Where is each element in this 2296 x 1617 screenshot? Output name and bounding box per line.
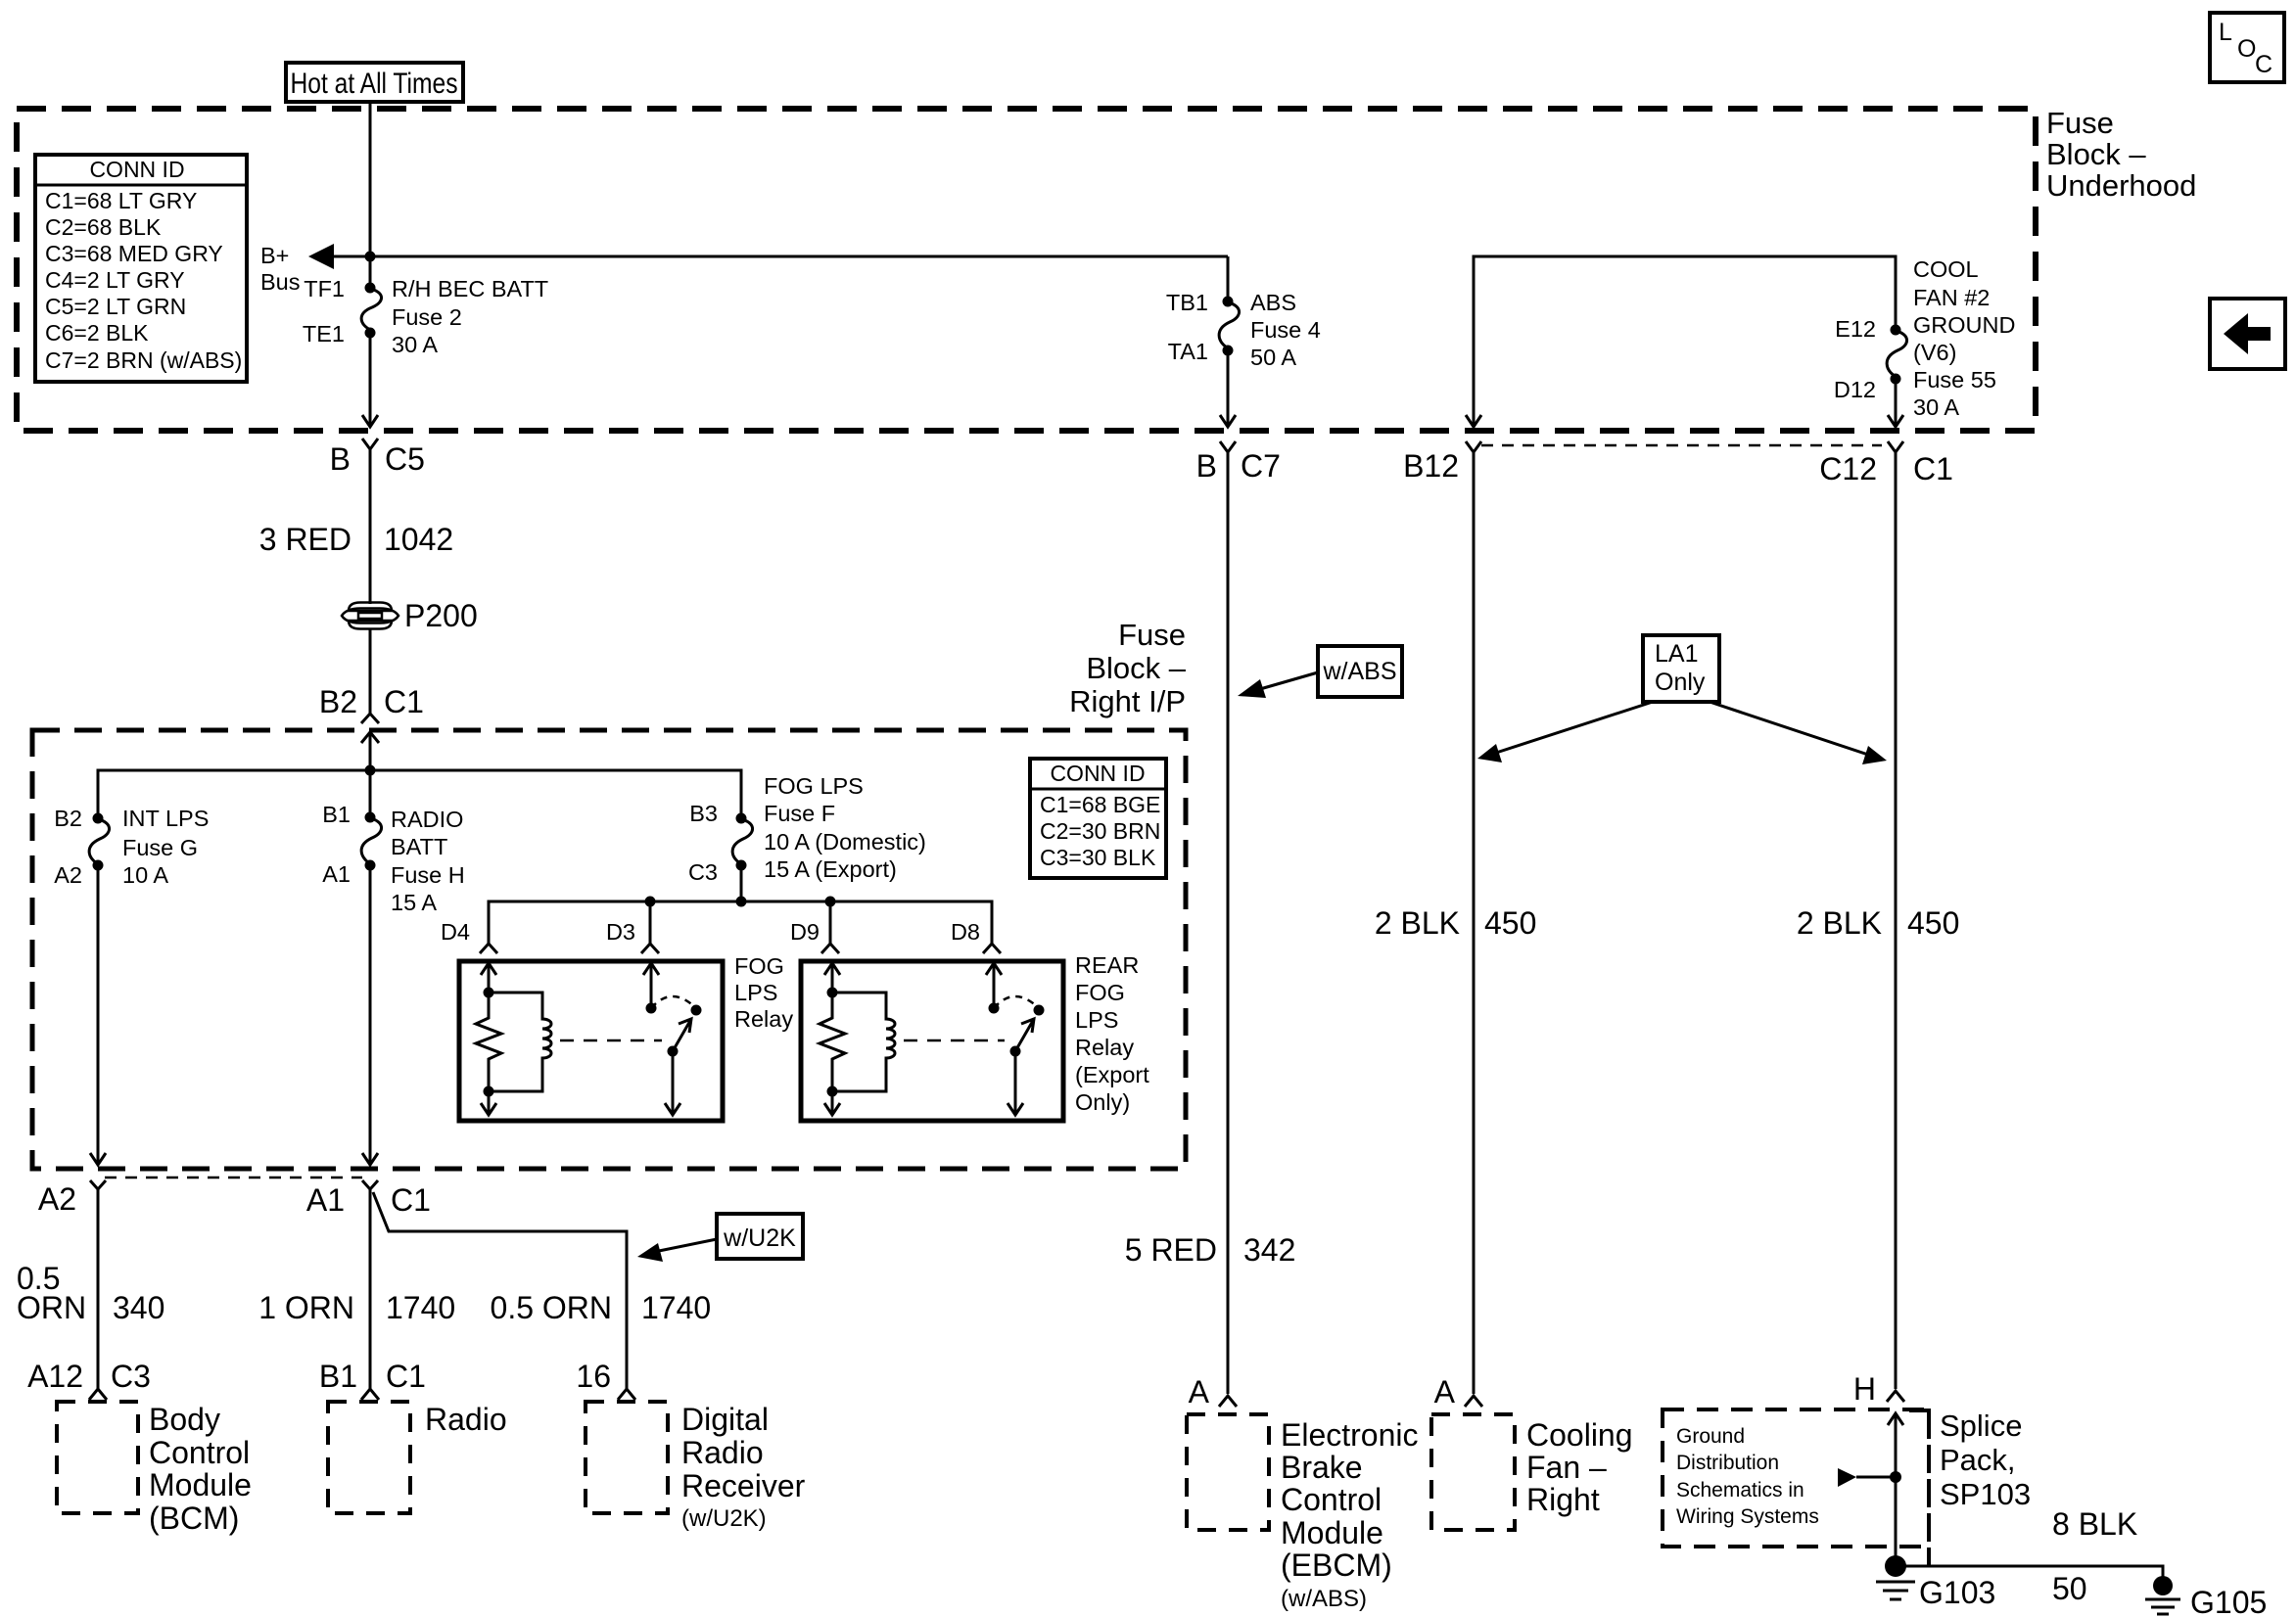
node: junction of feed and B+ bus — [365, 252, 376, 262]
Cooling Fan - Right box — [1431, 1414, 1633, 1530]
splice P200 — [342, 598, 478, 633]
connector B1/C1 (radio) — [319, 1359, 426, 1400]
node: bus junction at radio fuse — [365, 765, 376, 776]
distribution bus wire — [98, 770, 741, 818]
node: fuse F junction — [736, 897, 747, 907]
relay K2 REAR FOG LPS Relay box — [801, 961, 1063, 1121]
LOC legend box — [2210, 13, 2284, 82]
svg-text:B1: B1 — [322, 802, 351, 827]
connector C12/C1 — [1819, 441, 1953, 486]
svg-text:GROUND: GROUND — [1913, 312, 2015, 338]
Radio box — [328, 1402, 507, 1513]
connector D8 — [951, 919, 1001, 953]
wire: stub to D3 — [649, 901, 652, 944]
svg-text:Fuse 4: Fuse 4 — [1250, 317, 1321, 343]
svg-text:Fuse H: Fuse H — [391, 862, 465, 888]
relay K2 coil branch — [832, 993, 895, 1091]
svg-text:Brake: Brake — [1281, 1450, 1363, 1485]
connector A2 — [38, 1180, 106, 1217]
relay K2 switch throw arc (dashed) — [994, 996, 1039, 1008]
svg-text:(V6): (V6) — [1913, 340, 1956, 365]
svg-text:10 A: 10 A — [122, 862, 168, 888]
wire label 0.5 ORN 1740 — [491, 1290, 712, 1325]
wire: feed into distribution bus — [369, 732, 372, 817]
dashed connector boundary line B12 to C12 — [1481, 444, 1882, 447]
wire: fuse F output to relay feed line — [740, 865, 743, 901]
svg-text:8 BLK: 8 BLK — [2052, 1506, 2137, 1542]
relay K1 switch output arrow — [665, 1051, 680, 1115]
wire: B12 feed with horizontal run to cooling-fan fuse — [1474, 256, 1896, 425]
svg-text:C3=68 MED GRY: C3=68 MED GRY — [45, 241, 223, 266]
arrow entering fuse block right I/P — [361, 732, 379, 743]
svg-text:CONN ID: CONN ID — [89, 157, 184, 182]
svg-text:B: B — [330, 441, 351, 477]
svg-text:C2=30 BRN: C2=30 BRN — [1040, 818, 1160, 844]
svg-text:A1: A1 — [322, 861, 351, 887]
svg-text:D9: D9 — [790, 919, 820, 945]
svg-text:COOL: COOL — [1913, 256, 1979, 282]
svg-text:Fuse: Fuse — [2046, 106, 2114, 140]
relay K2 linkage (dashed) — [904, 1039, 1005, 1042]
svg-text:C1=68 LT GRY: C1=68 LT GRY — [45, 188, 197, 213]
svg-text:C12: C12 — [1819, 451, 1877, 486]
wire label 5 RED 342 — [1125, 1232, 1296, 1268]
w/ABS callout box — [1318, 646, 1402, 697]
LA1 callout arrow left — [1477, 702, 1653, 762]
node: relay K2 switch common — [1010, 1046, 1021, 1057]
svg-text:15 A: 15 A — [391, 890, 437, 915]
svg-text:Schematics in: Schematics in — [1676, 1479, 1804, 1501]
svg-text:ORN: ORN — [17, 1290, 86, 1325]
relay K1 linkage (dashed) — [560, 1039, 662, 1042]
CONN ID table (underhood) — [35, 155, 247, 382]
connector B/C7 — [1196, 441, 1281, 484]
svg-text:(w/U2K): (w/U2K) — [681, 1505, 767, 1532]
svg-text:TE1: TE1 — [303, 321, 345, 346]
svg-text:B3: B3 — [689, 801, 718, 826]
B+ Bus arrow and wire — [260, 243, 1228, 295]
svg-text:C1: C1 — [1913, 451, 1953, 486]
relay K2 resistor — [820, 993, 845, 1091]
svg-text:50 A: 50 A — [1250, 345, 1296, 370]
svg-text:C2=68 BLK: C2=68 BLK — [45, 214, 162, 240]
svg-text:C7=2 BRN (w/ABS): C7=2 BRN (w/ABS) — [45, 347, 242, 373]
svg-text:Right: Right — [1526, 1482, 1600, 1517]
connector B12 — [1403, 441, 1481, 484]
svg-text:H: H — [1853, 1371, 1876, 1407]
node: relay K1 coil bottom — [484, 1086, 494, 1097]
Ground Distribution reference box — [1663, 1409, 1929, 1547]
svg-text:C6=2 BLK: C6=2 BLK — [45, 320, 149, 346]
svg-text:1 ORN: 1 ORN — [258, 1290, 354, 1325]
node: D9 junction — [825, 897, 836, 907]
node: relay K2 coil top — [827, 988, 838, 998]
ground G105 — [2145, 1576, 2267, 1617]
svg-text:INT LPS: INT LPS — [122, 806, 209, 831]
svg-text:Receiver: Receiver — [681, 1468, 806, 1503]
wire: C5 down to splice P200 — [369, 449, 372, 604]
svg-text:A2: A2 — [54, 862, 82, 888]
svg-text:450: 450 — [1484, 905, 1536, 941]
wire label 3 RED 1042 — [259, 522, 453, 557]
wire: B+ bus branch down to ABS fuse — [1227, 256, 1230, 301]
ground distribution pointer triangle — [1838, 1468, 1901, 1487]
node: relay K1 switch pivot — [646, 1003, 657, 1014]
svg-text:Module: Module — [1281, 1515, 1383, 1550]
svg-text:Control: Control — [1281, 1482, 1382, 1517]
svg-text:Wiring Systems: Wiring Systems — [1676, 1505, 1819, 1528]
svg-text:LPS: LPS — [734, 980, 777, 1005]
svg-text:REAR: REAR — [1075, 952, 1139, 978]
relay K1 coil output arrow — [481, 1091, 496, 1115]
connector D4 — [441, 919, 497, 953]
svg-text:C: C — [2255, 51, 2273, 78]
svg-text:0.5 ORN: 0.5 ORN — [491, 1290, 612, 1325]
ground G103 — [1876, 1555, 1995, 1610]
node: relay K2 coil bottom — [827, 1086, 838, 1097]
left-arrow legend box — [2210, 299, 2285, 369]
svg-text:TB1: TB1 — [1166, 290, 1208, 315]
svg-text:C3: C3 — [688, 859, 718, 885]
fuse 55 (COOL FAN #2 GROUND (V6) 30 A), terminals E12/D12 — [1834, 256, 2016, 420]
svg-text:SP103: SP103 — [1940, 1477, 2031, 1511]
relay K1 switch throw arc (dashed) — [651, 996, 696, 1008]
Fuse Block - Underhood label — [2046, 106, 2196, 203]
svg-text:Digital: Digital — [681, 1402, 769, 1437]
svg-text:Underhood: Underhood — [2046, 168, 2196, 203]
relay K2 switch contact — [1034, 1005, 1045, 1016]
svg-text:C5: C5 — [385, 441, 425, 477]
svg-text:Splice: Splice — [1940, 1409, 2022, 1443]
wire label 2 BLK 450 (right) — [1797, 905, 1960, 941]
arrow at B12 — [1466, 415, 1481, 427]
svg-text:C7: C7 — [1241, 448, 1281, 484]
svg-text:A: A — [1434, 1374, 1456, 1409]
svg-text:Fuse 55: Fuse 55 — [1913, 367, 1996, 393]
svg-text:450: 450 — [1907, 905, 1959, 941]
svg-text:C1: C1 — [386, 1359, 426, 1394]
svg-text:Hot at All Times: Hot at All Times — [291, 68, 458, 100]
wire: splice pack ground feed — [1895, 452, 1898, 1389]
svg-text:TF1: TF1 — [304, 276, 345, 301]
svg-text:Fan –: Fan – — [1526, 1450, 1607, 1485]
svg-text:LA1: LA1 — [1655, 640, 1698, 668]
svg-text:G105: G105 — [2190, 1585, 2267, 1617]
connector B2/C1 — [319, 684, 424, 723]
svg-text:B1: B1 — [319, 1359, 357, 1394]
wire: fuse G output down to I/P edge — [97, 865, 100, 1163]
svg-text:FOG LPS: FOG LPS — [764, 773, 864, 799]
svg-text:B: B — [1196, 448, 1217, 484]
relay feed wire — [489, 901, 992, 944]
fuse G (INT LPS 10 A), terminals B2/A2 — [54, 806, 209, 888]
svg-text:Module: Module — [149, 1467, 252, 1502]
svg-text:Only: Only — [1655, 669, 1706, 696]
relay K2 coil output arrow — [824, 1091, 840, 1115]
w/U2K callout arrow — [637, 1239, 717, 1262]
wire: cooling fan ground feed — [1473, 452, 1476, 1394]
svg-text:R/H BEC BATT: R/H BEC BATT — [392, 276, 548, 301]
arrow into splice pack — [1888, 1413, 1903, 1566]
svg-text:TA1: TA1 — [1168, 339, 1208, 364]
svg-text:A1: A1 — [306, 1182, 345, 1218]
Fuse Block - Right I/P dashed box — [32, 730, 1186, 1169]
svg-text:D3: D3 — [606, 919, 635, 945]
svg-text:Electronic: Electronic — [1281, 1417, 1419, 1453]
w/U2K callout box — [717, 1214, 803, 1259]
svg-text:Distribution: Distribution — [1676, 1452, 1779, 1474]
svg-text:P200: P200 — [404, 598, 478, 633]
CONN ID table (right I/P) — [1030, 759, 1166, 878]
svg-text:D4: D4 — [441, 919, 470, 945]
svg-text:Body: Body — [149, 1402, 220, 1437]
svg-text:C4=2 LT GRY: C4=2 LT GRY — [45, 267, 185, 293]
relay K2 switch arm — [1015, 1019, 1034, 1051]
svg-text:2 BLK: 2 BLK — [1375, 905, 1460, 941]
fuse 4 (ABS 50 A), terminals TB1/TA1 — [1166, 290, 1321, 370]
svg-text:Radio: Radio — [425, 1402, 507, 1437]
svg-text:Pack,: Pack, — [1940, 1443, 2016, 1477]
svg-text:FOG: FOG — [734, 953, 784, 979]
wire label 2 BLK 450 (left) — [1375, 905, 1537, 941]
svg-text:B2: B2 — [54, 806, 82, 831]
svg-text:1042: 1042 — [384, 522, 453, 557]
svg-text:C5=2 LT GRN: C5=2 LT GRN — [45, 294, 186, 319]
LA1 Only callout box — [1643, 635, 1719, 702]
arrow at A2 — [90, 1153, 106, 1165]
svg-text:1740: 1740 — [386, 1290, 455, 1325]
svg-text:Right I/P: Right I/P — [1069, 684, 1186, 718]
svg-text:(BCM): (BCM) — [149, 1501, 239, 1536]
wire 8 BLK 50 to G105 — [1896, 1506, 2163, 1606]
svg-text:CONN ID: CONN ID — [1050, 761, 1145, 786]
svg-text:3 RED: 3 RED — [259, 522, 351, 557]
fuse H (RADIO BATT 15 A), terminals B1/A1 — [322, 802, 465, 915]
svg-text:Cooling: Cooling — [1526, 1417, 1633, 1453]
REAR FOG LPS Relay label — [1075, 952, 1149, 1115]
connector A1/C1 — [306, 1180, 431, 1218]
wire: fuse 2 output down to connector C5 — [369, 333, 372, 425]
connector D9 — [790, 919, 839, 953]
relay K1 coil branch — [489, 993, 551, 1091]
relay K1 switch input arrow — [643, 963, 659, 1008]
svg-text:10 A (Domestic): 10 A (Domestic) — [764, 829, 926, 855]
svg-text:A: A — [1189, 1374, 1210, 1409]
svg-text:50: 50 — [2052, 1571, 2087, 1606]
connector D3 — [606, 919, 659, 953]
svg-text:Fuse: Fuse — [1118, 618, 1186, 652]
wire: Hot at All Times feed down — [369, 102, 372, 288]
svg-text:15 A (Export): 15 A (Export) — [764, 856, 897, 882]
arrow at A1 — [362, 1153, 378, 1165]
svg-text:(EBCM): (EBCM) — [1281, 1548, 1392, 1583]
svg-text:ABS: ABS — [1250, 290, 1296, 315]
wire: fuse 4 output down to connector C7 — [1227, 350, 1230, 425]
fuse 2 (R/H BEC BATT 30 A), terminals TF1/TE1 — [303, 276, 548, 357]
connector H (splice pack) — [1853, 1371, 1904, 1407]
svg-text:Bus: Bus — [260, 269, 301, 295]
wire: stub to D9 — [829, 901, 832, 944]
connector A12/C3 — [27, 1359, 151, 1400]
svg-text:Ground: Ground — [1676, 1425, 1745, 1448]
svg-text:FOG: FOG — [1075, 980, 1125, 1005]
relay K1 coil input arrow — [481, 963, 496, 993]
svg-text:16: 16 — [576, 1359, 611, 1394]
wire label 1 ORN 1740 — [258, 1290, 455, 1325]
relay K1 FOG LPS Relay box — [459, 961, 723, 1121]
svg-text:B2: B2 — [319, 684, 357, 719]
fuse F (FOG LPS), terminals B3/C3 — [688, 773, 926, 885]
svg-text:C3=30 BLK: C3=30 BLK — [1040, 845, 1156, 870]
svg-text:LPS: LPS — [1075, 1007, 1118, 1033]
wire: A2 to BCM — [97, 1189, 100, 1389]
arrow at C12 — [1888, 415, 1903, 427]
dashed connector boundary line A2 to A1 — [105, 1177, 362, 1179]
svg-text:Block –: Block – — [2046, 137, 2146, 171]
Fuse Block - Underhood dashed box — [17, 109, 2036, 431]
node: D3 junction — [645, 897, 656, 907]
svg-text:G103: G103 — [1919, 1575, 1995, 1610]
svg-text:D12: D12 — [1834, 377, 1876, 402]
svg-text:Radio: Radio — [681, 1435, 764, 1470]
connector B/C5 — [330, 439, 425, 477]
node: relay K1 coil top — [484, 988, 494, 998]
svg-text:L: L — [2219, 19, 2232, 46]
svg-text:342: 342 — [1243, 1232, 1295, 1268]
splice pack SP103 dashed boundary — [1909, 1409, 2031, 1566]
Fuse Block - Right I/P label — [1069, 618, 1187, 718]
node: relay K1 switch common — [668, 1046, 679, 1057]
svg-text:B+: B+ — [260, 243, 289, 268]
relay K2 switch output arrow — [1007, 1051, 1023, 1115]
FOG LPS Relay label — [734, 953, 793, 1032]
wire label 0.5 ORN 340 — [17, 1261, 164, 1325]
svg-text:C1: C1 — [391, 1182, 431, 1218]
svg-text:Block –: Block – — [1086, 651, 1186, 685]
svg-text:BATT: BATT — [391, 834, 447, 859]
relay K1 switch contact — [691, 1005, 702, 1016]
relay K1 switch arm — [673, 1019, 691, 1051]
svg-text:C1=68 BGE: C1=68 BGE — [1040, 792, 1160, 817]
svg-text:FAN #2: FAN #2 — [1913, 285, 1990, 310]
node: relay K2 switch pivot — [989, 1003, 1000, 1014]
LA1 callout arrow right — [1710, 702, 1887, 764]
svg-text:A12: A12 — [27, 1359, 83, 1394]
svg-text:A2: A2 — [38, 1181, 76, 1217]
svg-text:D8: D8 — [951, 919, 980, 945]
svg-text:30 A: 30 A — [392, 332, 438, 357]
Hot at All Times box — [286, 63, 463, 102]
svg-text:O: O — [2237, 35, 2256, 63]
svg-text:(Export: (Export — [1075, 1062, 1149, 1087]
svg-text:Relay: Relay — [734, 1006, 793, 1032]
connector pin 16 — [576, 1359, 635, 1400]
svg-text:340: 340 — [113, 1290, 164, 1325]
svg-text:w/ABS: w/ABS — [1322, 658, 1396, 685]
svg-text:Control: Control — [149, 1435, 250, 1470]
relay K1 resistor — [476, 993, 501, 1091]
svg-text:5 RED: 5 RED — [1125, 1232, 1217, 1268]
svg-text:C1: C1 — [384, 684, 424, 719]
svg-text:Only): Only) — [1075, 1089, 1130, 1115]
svg-text:(w/ABS): (w/ABS) — [1281, 1586, 1367, 1612]
svg-text:RADIO: RADIO — [391, 807, 463, 832]
w/ABS callout arrow — [1238, 672, 1318, 698]
connector A (EBCM) — [1189, 1374, 1237, 1409]
relay K2 coil input arrow — [824, 963, 840, 993]
svg-text:2 BLK: 2 BLK — [1797, 905, 1882, 941]
wire: branch to digital radio receiver — [373, 1192, 627, 1389]
svg-text:Fuse G: Fuse G — [122, 835, 198, 860]
svg-text:Fuse F: Fuse F — [764, 801, 835, 826]
svg-text:w/U2K: w/U2K — [723, 1224, 796, 1252]
wire: P200 down to connector C1 — [369, 628, 372, 714]
connector A (cooling fan) — [1434, 1374, 1482, 1409]
Digital Radio Receiver box — [586, 1402, 806, 1532]
svg-text:B12: B12 — [1403, 448, 1459, 484]
svg-text:Fuse 2: Fuse 2 — [392, 304, 462, 330]
wire: A1 to radio — [369, 1189, 372, 1389]
Electronic Brake Control Module (EBCM) box — [1187, 1414, 1419, 1612]
wire: fuse 55 output down to connector C1 — [1895, 379, 1898, 425]
wire: EBCM feed (w/ABS) — [1227, 452, 1230, 1394]
Body Control Module (BCM) box — [57, 1402, 252, 1536]
svg-text:30 A: 30 A — [1913, 394, 1959, 420]
relay K2 switch input arrow — [986, 963, 1002, 1008]
arrow into C7 — [1220, 415, 1236, 427]
svg-text:1740: 1740 — [641, 1290, 711, 1325]
arrow into C5 — [362, 415, 378, 427]
svg-text:E12: E12 — [1835, 316, 1876, 342]
svg-text:Relay: Relay — [1075, 1035, 1134, 1060]
wire: fuse H output down to I/P edge — [369, 865, 372, 1163]
svg-text:C3: C3 — [111, 1359, 151, 1394]
